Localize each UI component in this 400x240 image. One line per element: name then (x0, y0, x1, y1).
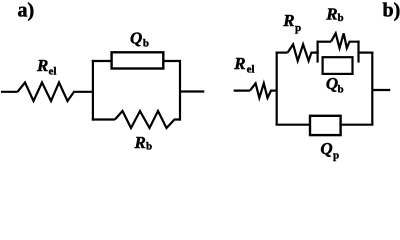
svg-text:p: p (333, 149, 339, 161)
svg-text:el: el (247, 63, 255, 75)
svg-text:b: b (338, 12, 344, 24)
resistor R_b (b) zigzag (331, 33, 360, 48)
wire top rail left (b) (276, 51, 288, 53)
wire exit sub-block (b) (359, 51, 374, 53)
svg-text:b): b) (383, 0, 400, 22)
wire output a (180, 90, 204, 92)
wire output b (372, 89, 390, 91)
svg-text:R: R (282, 11, 294, 30)
svg-text:b: b (338, 84, 344, 96)
resistor R_b (a) zigzag (115, 111, 181, 128)
svg-text:b: b (143, 38, 149, 50)
node outer left vertical (b) (276, 52, 278, 126)
wire input a (1, 91, 18, 93)
svg-text:Q: Q (130, 28, 142, 47)
svg-text:R: R (233, 54, 245, 73)
capacitor box Q_b (b) (323, 57, 353, 74)
wire bottom rail (b) (276, 124, 374, 126)
svg-text:p: p (295, 22, 301, 34)
svg-text:Q: Q (326, 74, 338, 93)
node right vertical (a) (179, 60, 181, 121)
node outer right vertical (b) (371, 52, 373, 126)
node sub-block left vertical (b) (317, 41, 319, 63)
wire top rail (a) (92, 60, 180, 62)
svg-text:R: R (325, 5, 337, 24)
capacitor box Q_b (a) (112, 52, 164, 68)
svg-text:R: R (36, 56, 48, 75)
wire bottom rail (a) (92, 118, 115, 120)
capacitor box Q_p (b) (310, 116, 341, 135)
resistor R_el (b) zigzag (250, 83, 277, 98)
node sub-block right vertical (b) (357, 41, 359, 63)
svg-text:b: b (146, 141, 152, 153)
wire input b (234, 89, 250, 91)
resistor R_p (b) zigzag (288, 44, 319, 60)
svg-text:el: el (49, 66, 57, 78)
svg-text:Q: Q (320, 139, 332, 158)
node left vertical (a) (92, 60, 94, 121)
svg-text:a): a) (18, 0, 35, 22)
svg-text:R: R (134, 133, 146, 152)
wire sub top rail (b) (317, 41, 332, 43)
resistor R_el (a) zigzag (18, 83, 92, 102)
